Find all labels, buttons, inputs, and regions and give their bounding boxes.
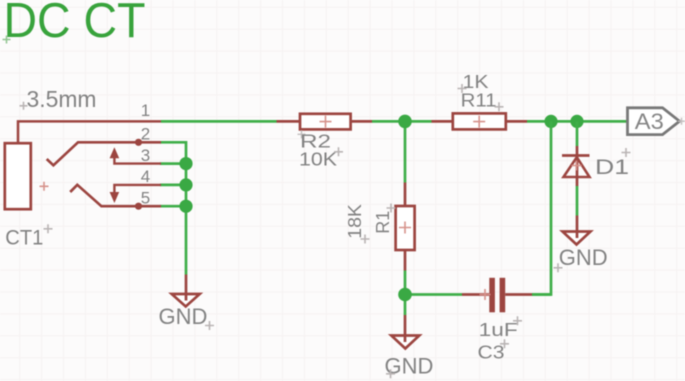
R11 origin cross bbox=[495, 102, 504, 111]
diode D1 bbox=[576, 146, 579, 186]
A3 net flag bbox=[628, 108, 680, 135]
pin 2 pivot dot bbox=[135, 139, 142, 146]
svg-text:1: 1 bbox=[141, 101, 150, 120]
title origin cross bbox=[3, 36, 11, 44]
svg-text:R2: R2 bbox=[300, 131, 331, 151]
origin cross of 3.5mm label bbox=[20, 102, 28, 110]
wire pin2 vertical down to GND bbox=[185, 141, 188, 275]
1uF origin cross bbox=[513, 316, 522, 325]
svg-text:GND: GND bbox=[385, 354, 434, 379]
svg-text:4: 4 bbox=[141, 167, 150, 186]
CT1 label origin cross bbox=[44, 224, 53, 233]
pin 3 contact with up arrow bbox=[114, 153, 161, 164]
R1 top pin bbox=[404, 183, 407, 207]
D1 origin cross bbox=[622, 148, 631, 157]
svg-text:1uF: 1uF bbox=[479, 320, 518, 340]
C3 label origin cross bbox=[500, 339, 509, 348]
wire R1 bottom to node D bbox=[404, 271, 407, 295]
wire node A down to R1 bbox=[404, 121, 407, 182]
svg-text:5: 5 bbox=[141, 188, 150, 207]
svg-text:18K: 18K bbox=[345, 204, 365, 239]
wire node C to D1 bbox=[576, 121, 579, 146]
A3 origin cross bbox=[678, 118, 685, 125]
wire pin3 stub bbox=[160, 162, 186, 165]
pin 1 of CT1 bbox=[18, 121, 161, 143]
svg-text:10K: 10K bbox=[299, 150, 337, 170]
R1 bottom pin bbox=[404, 250, 407, 271]
svg-text:A3: A3 bbox=[635, 109, 664, 134]
pin 2 lever of CT1 bbox=[47, 142, 161, 165]
node D junction bbox=[398, 288, 412, 302]
wire pin2 horizontal bbox=[160, 141, 186, 144]
C3 origin cross bbox=[480, 289, 491, 300]
R2 right pin bbox=[351, 120, 372, 123]
1K origin cross bbox=[458, 84, 467, 93]
10K origin cross bbox=[334, 147, 343, 156]
wire node B down bbox=[532, 121, 551, 294]
wire C3 right to node B column bbox=[532, 293, 551, 296]
CT1 origin cross bbox=[40, 182, 49, 191]
connector CT1 body bbox=[5, 143, 31, 209]
18K origin cross bbox=[361, 235, 370, 244]
svg-text:DC CT: DC CT bbox=[4, 0, 146, 48]
ground GND1 (under CT1) bbox=[172, 294, 200, 307]
wire R11 to A3 flag bbox=[527, 120, 627, 123]
R2 left pin bbox=[277, 120, 301, 123]
node A junction bbox=[398, 115, 412, 129]
R11 right pin bbox=[506, 120, 527, 123]
capacitor C3 plate left bbox=[489, 278, 495, 313]
junction pin3 bbox=[179, 157, 192, 170]
resistor R2 bbox=[300, 114, 351, 130]
svg-text:C3: C3 bbox=[478, 343, 505, 363]
wire node D below stub bbox=[404, 295, 407, 316]
resistor R11 bbox=[453, 113, 506, 129]
R2 label origin cross bbox=[298, 130, 306, 138]
pin 5 pivot dot bbox=[135, 203, 142, 210]
wire pin4 stub bbox=[160, 184, 186, 187]
node C junction bbox=[570, 115, 583, 128]
wire net N1 pin1 to R2 bbox=[161, 120, 277, 123]
wire node D to C3 bbox=[405, 293, 462, 296]
junction pin5 bbox=[179, 200, 192, 213]
wire pin5 stub bbox=[160, 205, 186, 208]
wire R2 to node A bbox=[372, 120, 405, 123]
pin 5 lever of CT1 bbox=[70, 185, 161, 206]
node B junction bbox=[544, 115, 557, 128]
capacitor C3 plate right bbox=[500, 278, 506, 313]
R1 origin cross bbox=[387, 204, 396, 213]
ground GND2 (under R1) bbox=[391, 336, 419, 349]
wire node A to R11 bbox=[405, 120, 432, 123]
svg-text:3: 3 bbox=[141, 146, 150, 165]
pin 4 contact with down arrow bbox=[114, 185, 161, 197]
svg-text:GND: GND bbox=[159, 304, 208, 329]
junction pin4 bbox=[179, 178, 192, 191]
wire D1 to GND stub bbox=[576, 186, 579, 216]
ground GND3 (under D1) bbox=[563, 232, 591, 245]
R11 left pin bbox=[432, 120, 453, 123]
svg-text:D1: D1 bbox=[595, 156, 629, 179]
svg-text:CT1: CT1 bbox=[5, 227, 43, 250]
svg-text:2: 2 bbox=[141, 125, 150, 144]
svg-text:GND: GND bbox=[559, 245, 608, 270]
C3 left pin bbox=[462, 293, 489, 296]
svg-text:3.5mm: 3.5mm bbox=[27, 86, 97, 112]
svg-text:R11: R11 bbox=[461, 90, 497, 110]
svg-text:R1: R1 bbox=[373, 211, 393, 234]
resistor R1 (vertical) bbox=[396, 206, 415, 250]
C3 right pin bbox=[505, 293, 532, 296]
